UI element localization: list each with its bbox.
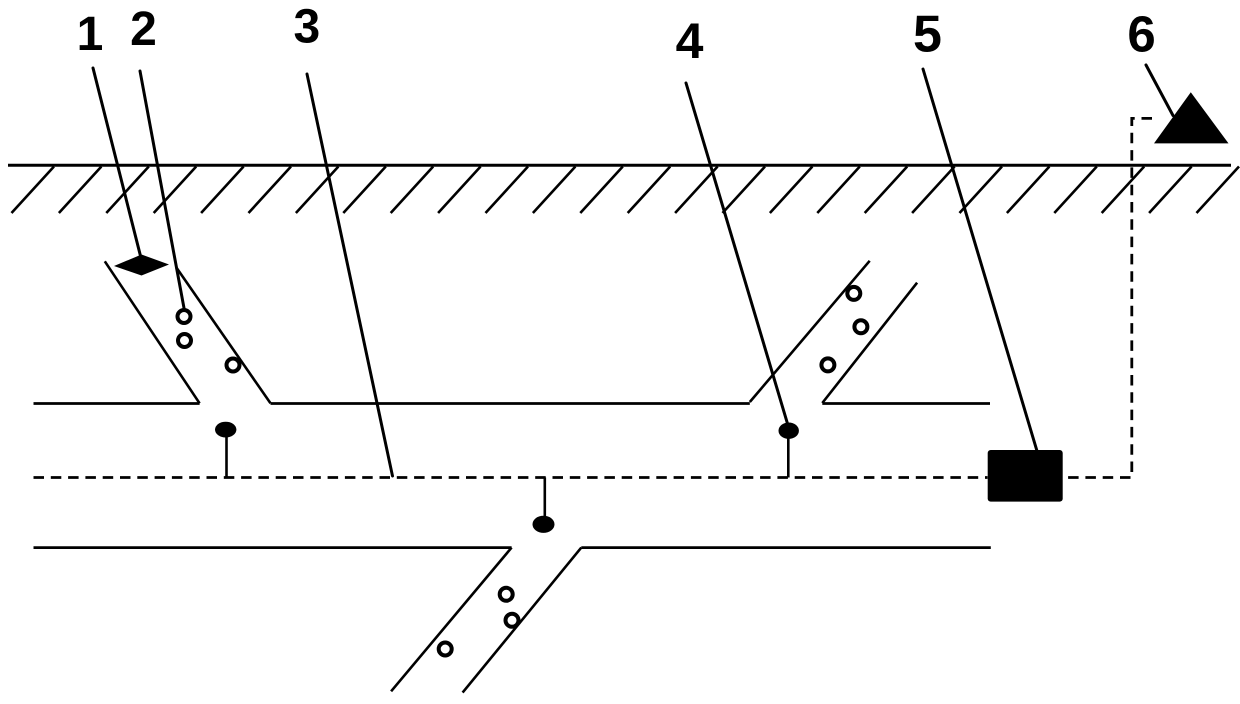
- sensor stem right: [787, 438, 790, 478]
- lower roadway roof line (left segment): [34, 546, 512, 549]
- svg-text:4: 4: [676, 13, 704, 69]
- lower roadway roof line (right segment): [581, 546, 991, 549]
- bubble circles lower incline: [439, 588, 519, 656]
- leader line 6: [1146, 65, 1173, 116]
- upper roadway floor line (left segment): [34, 402, 200, 405]
- lower incline left wall: [391, 548, 512, 692]
- leader line 2: [140, 71, 184, 308]
- dashed cable line (main horizontal run): [34, 476, 988, 479]
- upper roadway floor line (middle segment): [271, 402, 750, 405]
- svg-text:6: 6: [1127, 6, 1155, 63]
- right inclined shaft right wall: [822, 283, 917, 403]
- ground surface line: [8, 164, 1231, 167]
- sensor stem left: [225, 437, 228, 478]
- lower incline right wall: [463, 548, 582, 693]
- sensor node right (filled dot): [779, 423, 799, 439]
- svg-text:1: 1: [77, 8, 104, 61]
- svg-text:2: 2: [130, 3, 157, 56]
- svg-text:5: 5: [913, 6, 942, 64]
- leader line 5: [923, 69, 1037, 451]
- left inclined shaft right wall: [176, 267, 271, 403]
- bubble circles right shaft: [821, 287, 867, 372]
- left inclined shaft left wall: [105, 261, 200, 403]
- bubble circles left shaft: [178, 310, 240, 372]
- sensor stem bottom: [543, 478, 546, 517]
- upper roadway floor line (right segment): [822, 402, 990, 405]
- sensor node bottom (filled dot): [533, 516, 555, 533]
- surface station triangle: [1154, 92, 1229, 143]
- sensor node left (filled dot): [215, 422, 236, 438]
- monitoring station box: [988, 450, 1063, 502]
- leader line 3: [307, 74, 393, 476]
- svg-text:3: 3: [293, 1, 320, 54]
- ground hatching: [12, 167, 1240, 214]
- leader line 1: [93, 68, 141, 256]
- sealing plug diamond: [114, 255, 169, 276]
- dashed cable line (box to surface riser): [1063, 118, 1157, 477]
- right inclined shaft left wall: [750, 261, 870, 402]
- leader line 4: [686, 83, 789, 427]
